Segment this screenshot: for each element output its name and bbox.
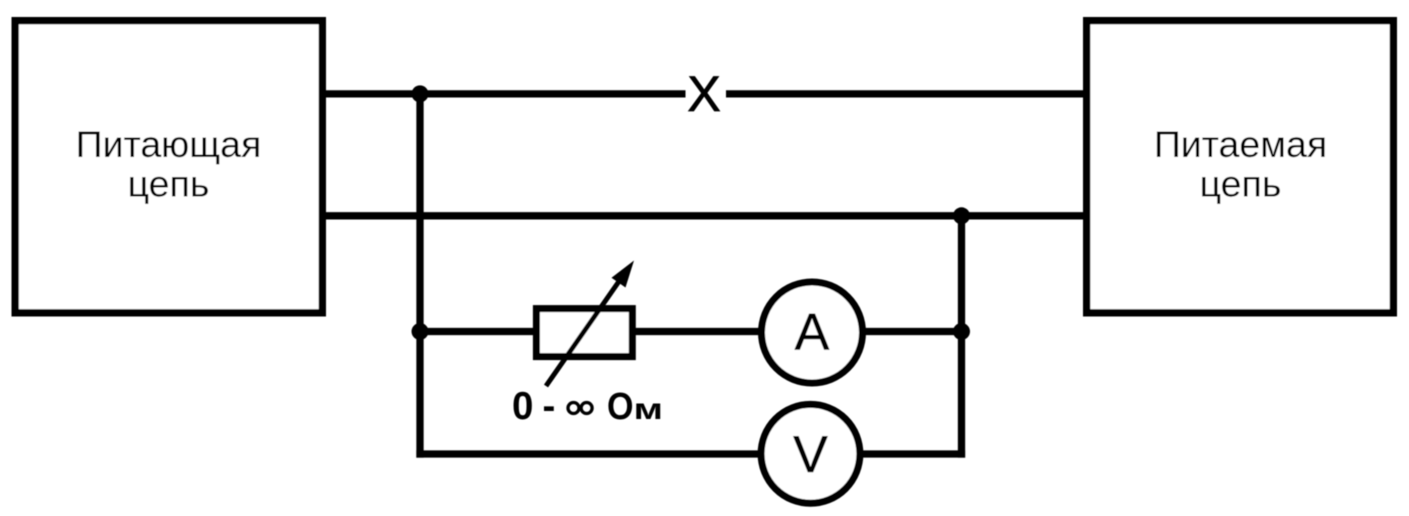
wire: left vertical branch xyxy=(416,94,423,458)
svg-text:A: A xyxy=(795,304,830,362)
ammeter A (circle) xyxy=(762,282,863,383)
supply box xyxy=(15,21,322,313)
svg-text:О: О xyxy=(607,386,634,428)
variable resistor arrow head xyxy=(612,261,635,288)
wire: right vertical branch xyxy=(958,216,965,458)
svg-text:м: м xyxy=(634,393,664,426)
wire: bottom conductor between boxes xyxy=(324,212,1085,219)
label: Питающая цепь xyxy=(76,123,262,205)
node: junction dot at top of left vertical branch xyxy=(412,85,429,102)
svg-text:X: X xyxy=(687,66,720,122)
svg-text:-: - xyxy=(543,385,556,428)
value label 0 - ∞ Ом xyxy=(512,385,663,428)
node: junction dot left end of measuring branch xyxy=(412,323,429,340)
svg-text:V: V xyxy=(793,426,828,484)
svg-text:цепь: цепь xyxy=(128,163,210,205)
wire: measuring branch (resistor + ammeter row) xyxy=(420,328,962,335)
svg-text:цепь: цепь xyxy=(1200,163,1282,205)
variable resistor adjustment arrow shaft xyxy=(546,277,622,386)
node: junction dot on bottom conductor at right vertical branch xyxy=(953,207,970,224)
powered box xyxy=(1087,21,1394,313)
node: junction dot right end of measuring branch xyxy=(953,323,970,340)
wire: top conductor, right segment (break X to powered box) xyxy=(726,90,1085,97)
svg-text:Питаемая: Питаемая xyxy=(1154,123,1327,165)
svg-text:0: 0 xyxy=(512,385,533,428)
voltmeter V (circle) xyxy=(761,404,860,503)
variable resistor (rheostat body) xyxy=(536,309,632,357)
wire: voltmeter row xyxy=(416,450,965,457)
wire: top conductor, left segment (supply box to break X) xyxy=(324,90,686,97)
svg-text:Питающая: Питающая xyxy=(76,123,262,165)
label: Питаемая цепь xyxy=(1154,123,1327,205)
